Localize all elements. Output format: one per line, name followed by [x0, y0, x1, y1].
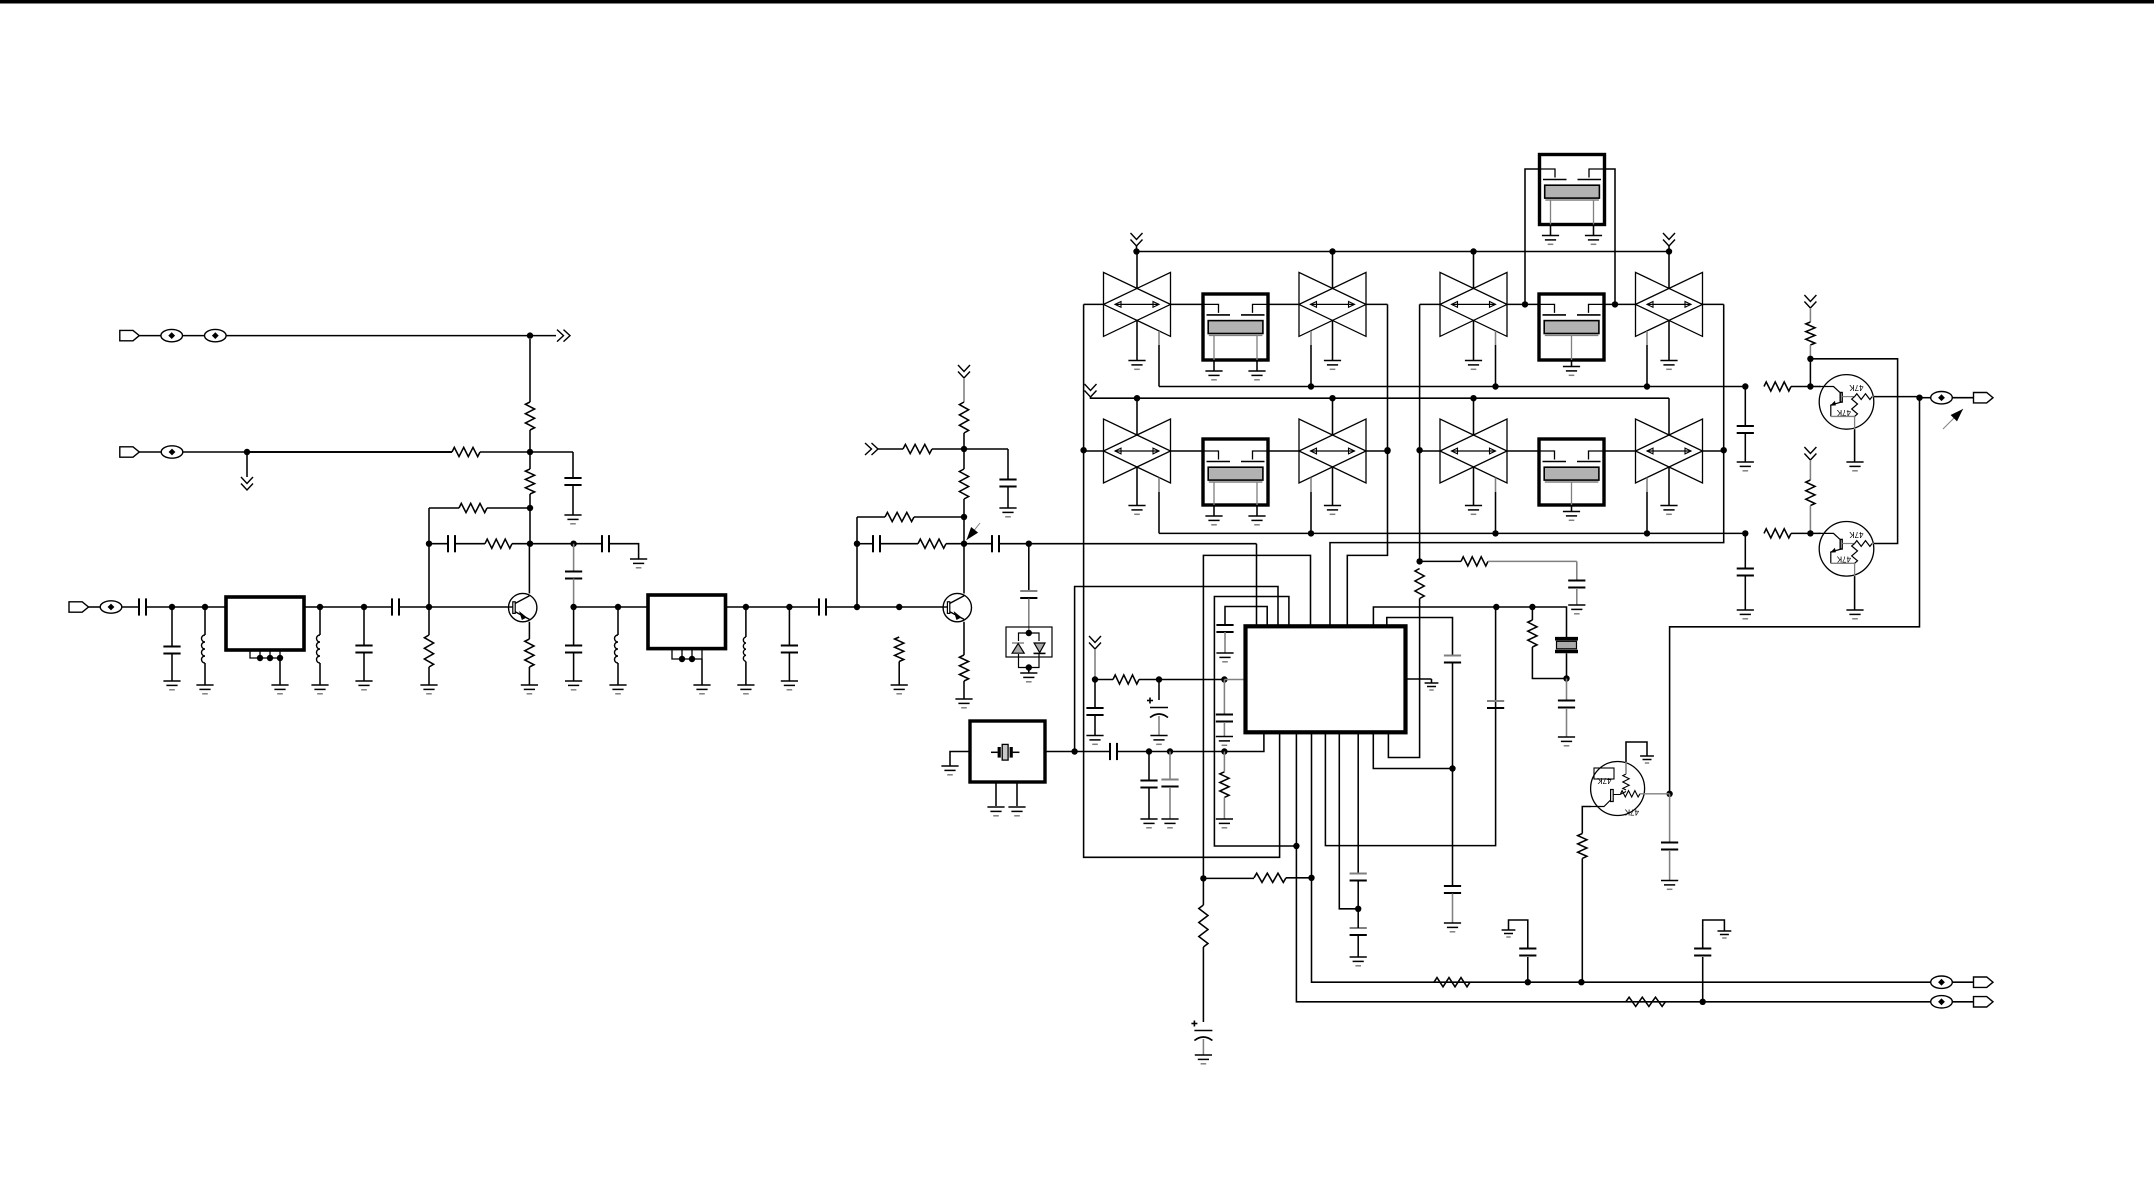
wire — [1525, 169, 1540, 304]
resistor R20 — [1254, 873, 1286, 882]
wire — [429, 606, 509, 608]
wire — [1809, 506, 1811, 534]
capacitor C16 — [1020, 591, 1037, 598]
wire — [1357, 732, 1359, 873]
wire — [914, 516, 964, 518]
wire — [319, 663, 321, 685]
wire osc1 net — [1347, 304, 1387, 628]
wire rail2 — [1091, 397, 1670, 398]
wire — [1669, 794, 1671, 842]
polarized capacitor C21 — [1147, 698, 1168, 718]
wire rail mid2 — [1159, 532, 1745, 534]
capacitor C9 — [565, 572, 582, 579]
junction — [1721, 447, 1727, 453]
wire — [932, 448, 964, 450]
supply arrow VCC2 — [958, 365, 970, 378]
ground — [1128, 361, 1145, 370]
wire — [1703, 450, 1724, 452]
wire — [1419, 304, 1421, 561]
ground — [941, 766, 958, 775]
wire — [964, 448, 1008, 450]
wire — [1095, 679, 1113, 681]
supply arrow — [1131, 233, 1143, 246]
wire — [878, 448, 903, 450]
capacitor C34 — [1737, 426, 1754, 433]
node Q2 collector — [961, 541, 967, 547]
node — [786, 604, 792, 610]
resistor R25 — [1764, 382, 1791, 391]
wire B3 anode — [1473, 252, 1475, 289]
junction — [1384, 447, 1390, 453]
wire — [1169, 752, 1171, 780]
wire pin5 loop — [1203, 555, 1310, 878]
wire — [1256, 360, 1258, 371]
wire — [726, 606, 746, 608]
resistor R4 — [459, 503, 487, 512]
resistor R9 — [903, 444, 932, 453]
digital transistor Q5 — [1591, 762, 1645, 817]
capacitor C10 — [565, 646, 582, 653]
wire — [146, 606, 172, 608]
node — [1666, 791, 1672, 797]
wire — [172, 606, 205, 608]
node supply1 top — [527, 332, 533, 338]
ground — [1737, 462, 1754, 471]
wire — [745, 662, 747, 686]
FL2 bottom pins — [672, 649, 702, 659]
ground — [1846, 610, 1863, 619]
connector bead — [1931, 976, 1953, 988]
wire — [963, 544, 965, 594]
wire — [1744, 434, 1746, 463]
ground — [1660, 506, 1677, 515]
wire — [1139, 679, 1159, 681]
wire — [246, 452, 248, 477]
capacitor C25 — [1558, 701, 1575, 708]
ground — [196, 685, 213, 694]
ground — [1846, 462, 1863, 471]
capacitor C29 — [1350, 928, 1367, 935]
wire — [1094, 649, 1096, 680]
port J5 output — [1974, 997, 1994, 1007]
junction — [1612, 301, 1618, 307]
wire — [1007, 449, 1009, 479]
wire — [1431, 679, 1433, 683]
wire — [1952, 397, 1973, 399]
supply arrow — [1804, 295, 1816, 308]
wire — [1668, 467, 1670, 505]
stub — [1310, 478, 1312, 492]
wire — [1625, 762, 1627, 774]
wire — [1605, 169, 1616, 304]
SAW filter Z4 — [1539, 439, 1604, 505]
varactor pair B1 — [1104, 272, 1171, 336]
resistor R1 — [525, 402, 534, 430]
wire — [1582, 807, 1591, 834]
wire — [1213, 505, 1215, 516]
wire — [963, 378, 965, 402]
wire rail mid1 — [1159, 386, 1745, 388]
wire — [1566, 708, 1568, 737]
wire — [171, 607, 173, 646]
wire — [1604, 450, 1636, 452]
wire — [609, 544, 639, 559]
capacitor C6 — [163, 647, 180, 654]
wire — [122, 606, 139, 608]
junction — [1644, 530, 1650, 536]
wire — [1388, 599, 1419, 758]
digital transistor Q3 — [1819, 375, 1874, 430]
ground — [955, 699, 972, 708]
junction — [1026, 630, 1032, 636]
wire — [574, 606, 618, 608]
varactor pair B8 — [1636, 419, 1703, 483]
capacitor C5 — [139, 598, 146, 615]
ground — [1465, 506, 1482, 515]
connector bead — [1931, 996, 1953, 1008]
junction — [689, 656, 695, 662]
SAW filter Z1 — [1203, 294, 1268, 360]
stub — [1158, 331, 1160, 345]
ground — [1660, 361, 1677, 370]
wire — [963, 681, 965, 699]
capacitor C32 — [1519, 949, 1536, 956]
wire — [139, 451, 161, 453]
capacitor C13 — [992, 535, 999, 552]
transistor Q1 — [509, 593, 537, 621]
SAW filter Z5 — [1540, 155, 1605, 225]
wire — [1136, 467, 1138, 505]
supply arrow — [1089, 636, 1101, 649]
port J4 output — [1974, 977, 1994, 987]
node — [615, 604, 621, 610]
resistor R11 — [885, 512, 914, 521]
node — [1700, 999, 1706, 1005]
wire — [530, 543, 574, 545]
wire — [573, 607, 575, 645]
IC filter FL2 — [648, 595, 726, 649]
node — [1221, 748, 1227, 754]
stub — [1495, 478, 1497, 492]
wire — [573, 653, 575, 681]
wire — [1149, 751, 1170, 753]
varactor pair B6 — [1299, 419, 1366, 483]
node — [426, 541, 432, 547]
wire — [183, 335, 205, 337]
wire — [247, 451, 452, 453]
wire — [529, 430, 531, 452]
IC filter FL1 — [226, 597, 304, 650]
node mix out — [1026, 541, 1032, 547]
diode limiter D1 D2 — [1006, 627, 1052, 668]
wire — [1744, 533, 1746, 568]
wire — [1136, 320, 1138, 360]
port J2 control B — [120, 447, 140, 457]
ground — [1661, 881, 1678, 890]
wire — [171, 654, 173, 681]
transistor Q2 — [943, 593, 971, 621]
wire — [429, 507, 459, 509]
capacitor C26 — [1444, 656, 1461, 663]
ground — [1248, 371, 1265, 380]
wire — [789, 606, 819, 608]
resistor R22 — [1434, 978, 1470, 987]
node — [854, 541, 860, 547]
svg-text:47K: 47K — [1836, 408, 1851, 417]
ground — [565, 681, 582, 690]
node — [1563, 675, 1569, 681]
svg-text:47K: 47K — [1597, 776, 1612, 785]
junction — [257, 655, 263, 661]
wire pin b5 loop — [1325, 607, 1495, 846]
wire — [857, 606, 899, 608]
wire — [1668, 246, 1670, 252]
svg-text:47K: 47K — [1849, 530, 1864, 539]
wire — [1202, 878, 1204, 905]
wire — [995, 782, 997, 806]
wire VCO net — [1330, 304, 1724, 628]
wire — [746, 606, 790, 608]
wire pin b6 — [1339, 732, 1358, 909]
varactor pair B7 — [1440, 419, 1507, 483]
wire — [247, 451, 452, 453]
ground — [1205, 516, 1222, 525]
ground — [1444, 923, 1461, 932]
node out1 — [570, 541, 576, 547]
wire — [1452, 769, 1454, 886]
capacitor C11 — [999, 480, 1016, 487]
wire — [1158, 716, 1160, 736]
wire — [183, 451, 247, 453]
resistor R16 — [1113, 675, 1139, 684]
wire — [1148, 788, 1150, 819]
stub — [1646, 478, 1648, 492]
capacitor C33 — [1694, 949, 1711, 956]
wire VT bus — [1084, 304, 1280, 857]
junction — [1493, 604, 1499, 610]
resistor R17 — [1461, 557, 1488, 566]
wire — [1531, 607, 1533, 620]
wire — [1571, 505, 1573, 512]
resistor R13 — [959, 655, 968, 681]
capacitor C12 — [873, 535, 880, 552]
wire — [529, 452, 531, 469]
node — [1416, 558, 1422, 564]
ground — [1502, 930, 1516, 937]
wire — [573, 544, 575, 572]
node — [1167, 748, 1173, 754]
resistor R28 — [1578, 834, 1587, 859]
wire — [856, 517, 858, 607]
wire — [1532, 647, 1566, 679]
wire — [1310, 345, 1312, 387]
wire — [1223, 752, 1225, 772]
ground — [521, 685, 538, 694]
wire — [574, 543, 602, 545]
resistor R21 — [1199, 905, 1208, 947]
ground — [1150, 736, 1167, 745]
wire — [320, 606, 364, 608]
resistor R24 — [1806, 322, 1815, 345]
ground — [355, 681, 372, 690]
junction — [1666, 248, 1672, 254]
wire — [1593, 225, 1595, 236]
resistor R26 — [1806, 480, 1815, 506]
wire — [1507, 303, 1539, 305]
wire — [205, 606, 226, 608]
resistor R5 — [424, 635, 433, 667]
wire — [1703, 303, 1724, 305]
junction — [1329, 395, 1335, 401]
capacitor C35 — [1661, 843, 1678, 850]
node RF out — [1916, 395, 1922, 401]
top border bar — [0, 0, 2154, 4]
capacitor C3 — [448, 535, 455, 552]
junction — [1742, 383, 1748, 389]
node — [1525, 979, 1531, 985]
inductor L1 — [202, 635, 206, 663]
node BRT2 base — [1807, 530, 1813, 536]
capacitor C15 — [781, 646, 798, 653]
wire — [1158, 492, 1160, 533]
capacitor C36 — [1737, 569, 1754, 576]
node osc — [1071, 748, 1077, 754]
wire — [428, 667, 430, 685]
junction — [1355, 906, 1361, 912]
capacitor C20 — [1086, 708, 1103, 715]
wire to IC pin — [1224, 732, 1264, 752]
junction — [1293, 843, 1299, 849]
wire — [1223, 722, 1225, 737]
resistor R23 — [1626, 997, 1666, 1006]
junction — [1644, 383, 1650, 389]
junction — [1470, 248, 1476, 254]
wire — [857, 516, 885, 518]
wire — [1094, 680, 1096, 708]
junction — [277, 655, 283, 661]
svg-text:47K: 47K — [1836, 555, 1851, 564]
wire — [1420, 450, 1440, 452]
ground — [1324, 361, 1341, 370]
ground — [781, 681, 798, 690]
wire — [1029, 543, 1257, 545]
resistor R14 — [895, 637, 904, 662]
wire — [512, 543, 530, 545]
wire — [1452, 894, 1454, 924]
wire B1 anode — [1136, 252, 1138, 289]
wire — [204, 663, 206, 685]
wire — [572, 452, 574, 478]
wire — [247, 451, 452, 453]
node fb1 — [527, 505, 533, 511]
ground — [999, 508, 1016, 517]
wire — [572, 486, 574, 516]
stub — [1310, 331, 1312, 345]
wire disc net — [1373, 607, 1566, 637]
port J6 VCO out — [1974, 393, 1994, 403]
ground — [1161, 819, 1178, 828]
ground — [1350, 957, 1367, 966]
stub — [1158, 478, 1160, 492]
wire — [1952, 981, 1973, 983]
wire — [1854, 576, 1856, 610]
ground — [564, 515, 581, 524]
junction — [1080, 447, 1086, 453]
wire — [1952, 1001, 1973, 1003]
wire — [1084, 303, 1104, 305]
ground — [1140, 819, 1157, 828]
ground — [1128, 506, 1145, 515]
crystal Y2 — [1555, 639, 1578, 652]
wire — [788, 653, 790, 681]
junction — [1449, 765, 1455, 771]
wire — [701, 659, 703, 685]
wire — [528, 667, 530, 685]
signal arrow out — [557, 330, 570, 342]
wire — [1117, 751, 1149, 753]
wire — [1550, 225, 1552, 236]
wire — [1452, 663, 1454, 769]
wire — [1571, 360, 1573, 367]
wire — [1159, 679, 1224, 681]
wire mute out — [1312, 732, 1932, 982]
inductor L3 — [615, 635, 618, 663]
wire — [1158, 680, 1160, 701]
wire — [618, 606, 648, 608]
node Q1 collector — [527, 541, 533, 547]
resistor R7 — [525, 639, 534, 667]
varactor pair B3 — [1440, 272, 1507, 336]
ground — [1324, 506, 1341, 515]
wire — [1169, 787, 1171, 819]
ground — [891, 685, 908, 694]
ground — [311, 685, 328, 694]
annotation arrow Q2 — [967, 523, 981, 540]
wire — [946, 543, 964, 545]
node — [1156, 676, 1162, 682]
wire — [788, 607, 790, 645]
inductor L4 — [743, 637, 746, 661]
PLL IC U1 — [1246, 626, 1406, 732]
junction — [1329, 248, 1335, 254]
wire — [363, 653, 365, 681]
node — [896, 604, 902, 610]
node — [1578, 979, 1584, 985]
connector bead — [161, 329, 183, 341]
capacitor C7 — [392, 598, 399, 615]
junction — [1529, 604, 1535, 610]
varactor pair B2 — [1299, 272, 1366, 336]
wire — [1016, 782, 1018, 806]
ground — [987, 807, 1004, 816]
wire — [319, 607, 321, 635]
wire supply loop — [1810, 359, 1897, 544]
capacitor C22 — [1216, 715, 1233, 722]
wire — [530, 335, 556, 337]
node BRT1 base — [1807, 383, 1813, 389]
wire — [1224, 632, 1226, 653]
resistor R19 — [1528, 620, 1537, 647]
wire B2 anode — [1332, 252, 1334, 289]
wire — [1509, 920, 1528, 949]
wire — [487, 507, 530, 509]
wire — [1566, 653, 1568, 678]
SAW filter Z3 — [1203, 439, 1268, 505]
wire — [204, 607, 206, 635]
ground — [1718, 931, 1732, 938]
supply arrow — [1085, 384, 1097, 397]
ground — [1248, 516, 1265, 525]
